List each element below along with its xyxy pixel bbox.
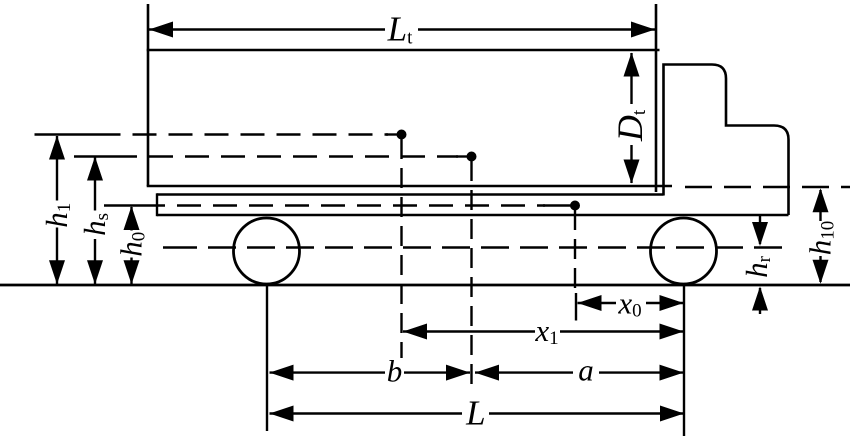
hs level line (sprung cg) (74, 155, 113, 157)
rear wheel (234, 218, 300, 284)
cargo box top (147, 49, 660, 52)
h10 arrowheads (813, 188, 829, 212)
h1 level line (cg loaded) (35, 133, 97, 135)
vertical dashed from dot1 (400, 139, 402, 358)
node dot2 (sprung cg) (467, 152, 477, 162)
ground (0, 284, 850, 287)
Dt dimension line (630, 53, 632, 104)
a dimension line (475, 371, 573, 373)
hr upper pointer line (759, 215, 761, 244)
Dt arrowheads (624, 53, 640, 77)
b dimension line (270, 371, 386, 373)
cab outline (664, 65, 789, 216)
node dot3 (frame point) (570, 201, 580, 211)
front wheel (651, 218, 717, 284)
hr lower pointer line (759, 288, 761, 314)
hs arrowheads (87, 157, 103, 181)
frame left cap (156, 193, 158, 216)
rear axle extension below ground (266, 285, 268, 431)
vertical dashed from dot3 (574, 210, 576, 292)
svg-text:b: b (387, 354, 403, 389)
hl dimension line (56, 136, 58, 201)
svg-text:L: L (465, 394, 485, 433)
Lt dimension line (149, 28, 385, 30)
x1 arrowheads (403, 324, 427, 340)
wheel centre line (163, 246, 197, 248)
cargo box left edge / Lt extension (147, 4, 150, 186)
x0 tick (575, 293, 577, 321)
svg-text:a: a (578, 353, 594, 388)
cargo box right edge / Lt extension (655, 4, 658, 192)
h10 dimension line (819, 190, 821, 221)
frame bottom (157, 214, 789, 216)
front axle extension below ground (683, 285, 685, 436)
h0 level line (frame cg) (104, 204, 141, 206)
h0 dimension line (130, 207, 132, 231)
node dot1 (loaded cg) (397, 130, 407, 140)
Lt arrowheads (149, 22, 173, 38)
b arrowheads (270, 365, 294, 381)
hl arrowheads (49, 136, 65, 160)
a arrowheads (475, 365, 499, 381)
frame top (157, 193, 664, 195)
hs dimension line (94, 157, 96, 211)
L dimension line (270, 412, 463, 414)
x0 arrowheads (578, 295, 602, 311)
x0 dimension line (578, 302, 617, 304)
vertical dashed from dot2 (470, 161, 472, 392)
hr arrowheads (752, 222, 768, 246)
h0 arrowheads (124, 206, 140, 230)
cargo box bottom (147, 185, 672, 188)
x1 dimension line (403, 330, 535, 332)
L arrowheads (270, 406, 294, 422)
frame level dashed line right (685, 186, 850, 188)
